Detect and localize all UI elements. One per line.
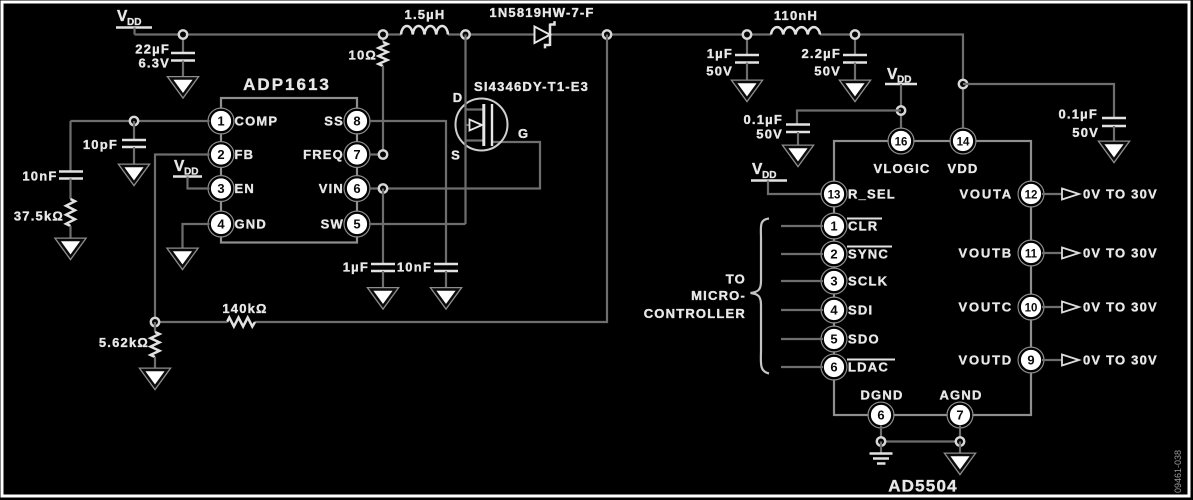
pin 2 SYNC bbox=[821, 241, 892, 267]
svg-text:16: 16 bbox=[895, 137, 908, 149]
svg-text:11: 11 bbox=[1025, 249, 1038, 261]
transistor Q1 SI4346DY-T1-E3 N-MOSFET bbox=[451, 35, 589, 225]
svg-text:7: 7 bbox=[956, 408, 963, 423]
node junction rail/R1 bbox=[379, 30, 387, 38]
svg-text:10Ω: 10Ω bbox=[349, 48, 377, 63]
svg-text:CLR: CLR bbox=[848, 219, 878, 234]
wire VIN row to MOSFET gate bbox=[369, 142, 540, 189]
svg-text:7: 7 bbox=[353, 147, 360, 162]
resistor R1 10 ohm bbox=[349, 35, 388, 155]
svg-text:SCLK: SCLK bbox=[848, 274, 888, 289]
svg-text:5: 5 bbox=[830, 332, 837, 347]
svg-text:SDO: SDO bbox=[848, 332, 880, 347]
svg-text:6: 6 bbox=[830, 360, 837, 375]
ground earth symbol (digital) bbox=[870, 442, 893, 464]
wire GND pin row bbox=[183, 224, 210, 250]
op-amp AD5504 IC box U2 bbox=[834, 141, 1031, 415]
capacitor C5 10nF (soft start) bbox=[397, 260, 458, 290]
ground arrow (analog) bbox=[948, 442, 972, 472]
svg-text:LDAC: LDAC bbox=[848, 360, 889, 375]
svg-text:VLOGIC: VLOGIC bbox=[873, 161, 930, 176]
svg-text:COMP: COMP bbox=[235, 114, 279, 129]
pin 10 VOUTC bbox=[959, 294, 1044, 320]
capacitor C7 2.2uF 50V bbox=[801, 35, 867, 83]
node junction rail/MOSFET drain bbox=[461, 30, 469, 38]
resistor R3 140k feedback top bbox=[155, 35, 607, 327]
capacitor C3 10nF bbox=[22, 121, 83, 199]
wire SW row to MOSFET source bbox=[369, 223, 466, 225]
wire stub SDI bbox=[781, 309, 823, 311]
svg-text:1µF: 1µF bbox=[707, 46, 733, 61]
capacitor C8 0.1uF 50V (output bypass) bbox=[1058, 107, 1126, 144]
node junction rail/C7 bbox=[851, 30, 859, 38]
svg-text:14: 14 bbox=[957, 137, 970, 149]
pin 2 FB bbox=[208, 142, 254, 168]
svg-text:4: 4 bbox=[830, 303, 838, 318]
svg-text:10: 10 bbox=[1025, 303, 1038, 315]
svg-text:1.5µH: 1.5µH bbox=[405, 7, 446, 22]
svg-text:2: 2 bbox=[217, 147, 224, 162]
svg-text:3: 3 bbox=[217, 181, 224, 196]
pin 3 SCLK bbox=[821, 268, 888, 294]
svg-text:ADP1613: ADP1613 bbox=[243, 75, 331, 94]
svg-text:37.5kΩ: 37.5kΩ bbox=[14, 209, 64, 224]
svg-text:10nF: 10nF bbox=[397, 260, 432, 275]
power symbol VDD at EN bbox=[173, 158, 210, 189]
svg-text:SYNC: SYNC bbox=[848, 247, 889, 262]
capacitor C4 1uF (VIN filter) bbox=[343, 260, 395, 290]
svg-text:50V: 50V bbox=[1072, 125, 1099, 140]
wire DGND down bbox=[880, 426, 882, 442]
wire FB row and FB vertical bbox=[155, 155, 210, 323]
svg-text:4: 4 bbox=[217, 217, 225, 232]
pin 4 GND bbox=[208, 211, 267, 237]
svg-text:8: 8 bbox=[353, 114, 360, 129]
svg-text:1N5819HW-7-F: 1N5819HW-7-F bbox=[489, 5, 594, 20]
power symbol VDD at R_SEL bbox=[751, 161, 823, 194]
svg-text:AD5504: AD5504 bbox=[888, 477, 958, 496]
pin 16 VLOGIC bbox=[873, 128, 930, 176]
wire VIN filter vertical bbox=[382, 189, 384, 264]
svg-text:50V: 50V bbox=[706, 64, 733, 79]
svg-text:09461-038: 09461-038 bbox=[1173, 450, 1183, 493]
wire stub SDO bbox=[781, 338, 823, 340]
svg-text:3: 3 bbox=[830, 274, 837, 289]
svg-text:SDI: SDI bbox=[848, 303, 873, 318]
svg-text:50V: 50V bbox=[814, 64, 841, 79]
output arrow VOUTD 0V TO 30V bbox=[1042, 353, 1158, 368]
svg-text:CONTROLLER: CONTROLLER bbox=[644, 306, 746, 321]
node junction DGND bbox=[877, 437, 885, 445]
svg-text:EN: EN bbox=[235, 181, 255, 196]
wire SS row to soft-start cap bbox=[369, 121, 446, 264]
svg-text:G: G bbox=[518, 126, 529, 141]
ground below C2 bbox=[122, 166, 146, 183]
inductor L1 1.5uH bbox=[401, 7, 448, 35]
svg-text:110nH: 110nH bbox=[774, 8, 818, 23]
label TO MICROCONTROLLER bbox=[644, 272, 746, 322]
wire ground tie bbox=[881, 440, 960, 442]
svg-text:VOUTC: VOUTC bbox=[959, 300, 1014, 315]
svg-text:140kΩ: 140kΩ bbox=[222, 301, 267, 316]
wire stub LDAC bbox=[781, 366, 823, 368]
svg-text:R_SEL: R_SEL bbox=[848, 187, 896, 202]
pin 5 SW bbox=[321, 211, 370, 237]
svg-text:AGND: AGND bbox=[939, 388, 982, 403]
svg-text:10nF: 10nF bbox=[22, 169, 57, 184]
svg-text:VOUTB: VOUTB bbox=[959, 246, 1014, 261]
svg-text:S: S bbox=[451, 148, 461, 163]
ground below C5 bbox=[434, 290, 458, 307]
node junction rail/diode cathode output bbox=[603, 30, 611, 38]
svg-text:TO: TO bbox=[726, 272, 746, 287]
svg-text:VIN: VIN bbox=[319, 181, 344, 196]
wire branch to 0.1uF output bypass bbox=[963, 84, 1114, 118]
pin 3 EN bbox=[208, 176, 255, 202]
wire stub CLR bbox=[781, 225, 823, 227]
pin 6 VIN bbox=[319, 176, 370, 202]
svg-text:12: 12 bbox=[1025, 190, 1038, 202]
ground below C4 bbox=[371, 290, 395, 307]
svg-text:10pF: 10pF bbox=[83, 137, 118, 152]
wire FREQ stub bbox=[369, 153, 383, 155]
node junction FB divider bbox=[151, 318, 159, 326]
svg-text:1: 1 bbox=[830, 219, 837, 234]
node junction VLOGIC bypass bbox=[897, 106, 905, 114]
inductor L2 110nH bbox=[771, 8, 820, 35]
node junction COMP/10pF bbox=[130, 117, 138, 125]
node junction rail/C1 bbox=[179, 30, 187, 38]
svg-text:DGND: DGND bbox=[860, 388, 903, 403]
power symbol VDD at VLOGIC bbox=[885, 66, 917, 131]
pin 7 FREQ bbox=[303, 142, 370, 168]
svg-text:2: 2 bbox=[830, 247, 837, 262]
svg-text:MICRO-: MICRO- bbox=[691, 288, 746, 303]
diode D1 1N5819HW-7-F bbox=[489, 5, 594, 48]
node junction VDD pin14 branch to bypass bbox=[959, 80, 967, 88]
svg-text:FREQ: FREQ bbox=[303, 147, 344, 162]
capacitor C6 1uF 50V bbox=[706, 35, 759, 83]
pin 14 VDD bbox=[947, 128, 978, 176]
svg-text:13: 13 bbox=[828, 190, 841, 202]
pin 6 DGND bbox=[860, 388, 903, 428]
svg-text:22µF: 22µF bbox=[135, 42, 170, 57]
pin 8 SS bbox=[324, 108, 370, 134]
node junction AGND bbox=[956, 437, 964, 445]
ground below C9 bbox=[786, 147, 810, 164]
resistor R2 37.5k bbox=[14, 199, 75, 240]
svg-text:2.2µF: 2.2µF bbox=[801, 46, 841, 61]
svg-text:GND: GND bbox=[235, 217, 268, 232]
svg-text:6: 6 bbox=[877, 408, 884, 423]
svg-text:FB: FB bbox=[235, 147, 255, 162]
wire AGND down bbox=[959, 426, 961, 442]
wire VLOGIC bypass branch bbox=[797, 111, 901, 125]
resistor R4 5.62k feedback bottom bbox=[99, 322, 160, 370]
svg-text:1: 1 bbox=[217, 114, 224, 129]
capacitor C1 22uF 6.3V bbox=[135, 35, 195, 79]
pin 4 SDI bbox=[821, 297, 873, 323]
wire rail segment 110nH to right corner down to VDD pin 14 bbox=[820, 35, 963, 131]
svg-text:5: 5 bbox=[353, 217, 360, 232]
svg-text:1µF: 1µF bbox=[343, 260, 369, 275]
pin 6 LDAC bbox=[821, 354, 895, 380]
ground below R4 bbox=[143, 370, 167, 387]
ground below GND pin bbox=[171, 250, 195, 267]
power symbol VDD (input rail) bbox=[116, 8, 152, 35]
svg-text:0V TO 30V: 0V TO 30V bbox=[1083, 187, 1158, 202]
node junction FREQ/R1 bbox=[379, 150, 387, 158]
wire stub SCLK bbox=[781, 280, 823, 282]
ground below C8 bbox=[1102, 143, 1126, 160]
svg-text:0V TO 30V: 0V TO 30V bbox=[1083, 353, 1158, 368]
node junction VIN bbox=[379, 184, 387, 192]
ground below R2 bbox=[59, 240, 83, 257]
pin 12 VOUTA bbox=[959, 181, 1043, 207]
pin 7 AGND bbox=[939, 388, 982, 428]
svg-text:6.3V: 6.3V bbox=[138, 56, 170, 71]
op-amp ADP1613 IC box U1 bbox=[221, 98, 357, 243]
ground below C6 bbox=[735, 82, 759, 99]
wire stub SYNC bbox=[781, 253, 823, 255]
svg-text:6: 6 bbox=[353, 181, 360, 196]
capacitor C2 10pF bbox=[83, 121, 146, 166]
svg-text:SI4346DY-T1-E3: SI4346DY-T1-E3 bbox=[474, 79, 589, 94]
svg-text:0V TO 30V: 0V TO 30V bbox=[1083, 300, 1158, 315]
output arrow VOUTB 0V TO 30V bbox=[1042, 246, 1158, 261]
pin 9 VOUTD bbox=[959, 347, 1044, 373]
svg-text:VDD: VDD bbox=[947, 161, 978, 176]
svg-text:9: 9 bbox=[1027, 353, 1034, 368]
ground below C1 bbox=[171, 79, 195, 96]
wire COMP row bbox=[71, 120, 210, 122]
brace to microcontroller bbox=[751, 219, 770, 374]
output arrow VOUTA 0V TO 30V bbox=[1042, 187, 1158, 202]
pin 1 CLR bbox=[821, 213, 882, 239]
output arrow VOUTC 0V TO 30V bbox=[1042, 300, 1158, 315]
pin 5 SDO bbox=[821, 326, 880, 352]
pin 1 COMP bbox=[208, 108, 278, 134]
wire input rail segment VDD to inductor L1 bbox=[135, 33, 402, 35]
svg-text:0V TO 30V: 0V TO 30V bbox=[1083, 246, 1158, 261]
ground below C7 bbox=[843, 82, 867, 99]
svg-text:0.1µF: 0.1µF bbox=[743, 112, 783, 127]
svg-text:50V: 50V bbox=[756, 127, 783, 142]
wire rail segment L1 to 110nH bbox=[448, 33, 771, 35]
pin 13 R_SEL bbox=[821, 181, 896, 207]
svg-text:5.62kΩ: 5.62kΩ bbox=[99, 335, 149, 350]
svg-text:VOUTA: VOUTA bbox=[959, 187, 1013, 202]
capacitor C9 0.1uF 50V (VLOGIC bypass) bbox=[743, 112, 810, 147]
pin 11 VOUTB bbox=[959, 240, 1044, 266]
svg-text:D: D bbox=[453, 90, 464, 105]
svg-text:VOUTD: VOUTD bbox=[959, 353, 1014, 368]
svg-text:SW: SW bbox=[321, 217, 344, 232]
svg-text:0.1µF: 0.1µF bbox=[1058, 107, 1098, 122]
svg-text:SS: SS bbox=[324, 114, 344, 129]
node junction rail/C6 bbox=[743, 30, 751, 38]
